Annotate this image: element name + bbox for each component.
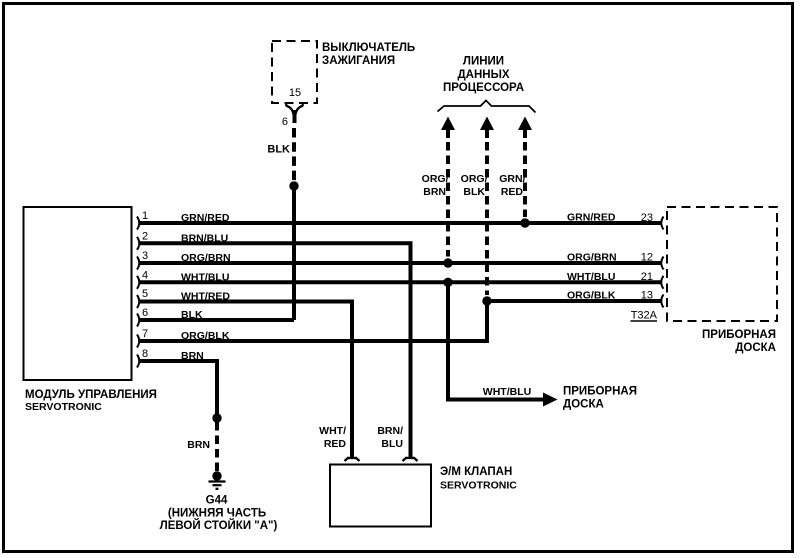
svg-text:8: 8 <box>142 348 148 360</box>
svg-text:GRN/RED: GRN/RED <box>181 212 230 224</box>
svg-text:BRN: BRN <box>187 439 210 451</box>
label G44 <box>160 495 278 533</box>
panel connector pin 21 <box>661 276 663 289</box>
pin 1 connector <box>137 210 148 230</box>
svg-text:ORG/BRN: ORG/BRN <box>567 252 617 264</box>
svg-text:WHT/: WHT/ <box>319 425 346 437</box>
wire WHT/RED pin5 down to valve <box>140 302 352 458</box>
svg-text:ЛИНИИ: ЛИНИИ <box>463 56 504 68</box>
panel connector pin 13 <box>661 295 663 308</box>
panel connector pin 23 <box>661 217 663 230</box>
svg-text:6: 6 <box>142 307 148 319</box>
pin 4 connector <box>137 269 148 289</box>
svg-text:(НИЖНЯЯ ЧАСТЬ: (НИЖНЯЯ ЧАСТЬ <box>168 508 266 520</box>
wire GRN/RED pin1 to panel <box>140 221 661 225</box>
svg-text:BRN/BLU: BRN/BLU <box>181 232 228 244</box>
svg-text:BLK: BLK <box>181 309 203 321</box>
svg-text:13: 13 <box>641 290 653 302</box>
svg-text:4: 4 <box>142 269 148 281</box>
svg-text:1: 1 <box>142 210 148 222</box>
panel connector pin 12 <box>661 257 663 270</box>
svg-text:SERVOTRONIC: SERVOTRONIC <box>440 480 517 492</box>
arrowhead to instrument panel <box>543 393 558 407</box>
wire BLK solid down to pin 6 row <box>292 186 296 320</box>
ground G44 <box>209 471 226 489</box>
wire ORG/BRN pin3 to panel <box>140 261 661 265</box>
svg-text:WHT/BLU: WHT/BLU <box>181 271 229 283</box>
svg-text:SERVOTRONIC: SERVOTRONIC <box>25 401 102 413</box>
svg-text:3: 3 <box>142 250 148 262</box>
svg-text:T32A: T32A <box>631 310 658 322</box>
svg-text:2: 2 <box>142 230 148 242</box>
svg-text:ПРИБОРНАЯ: ПРИБОРНАЯ <box>563 386 637 398</box>
wire BLK dashed from ignition switch <box>292 128 296 183</box>
ignition switch S1 (dashed box) <box>272 41 317 103</box>
junction on GRN/RED row <box>520 218 529 227</box>
svg-text:ORG/BRN: ORG/BRN <box>181 252 231 264</box>
wire WHT/BLU branch to panel arrow <box>448 282 544 399</box>
svg-text:G44: G44 <box>206 495 228 507</box>
svg-text:RED: RED <box>324 438 347 450</box>
valve terminal right <box>403 458 418 461</box>
svg-text:Э/М КЛАПАН: Э/М КЛАПАН <box>440 466 512 478</box>
svg-text:ПРОЦЕССОРА: ПРОЦЕССОРА <box>443 82 524 94</box>
connector id T32A <box>631 310 658 322</box>
svg-text:7: 7 <box>142 328 148 340</box>
wire BRN pin8 down <box>140 361 217 418</box>
svg-text:ORG/: ORG/ <box>461 173 488 185</box>
svg-text:12: 12 <box>641 252 653 264</box>
svg-text:ПРИБОРНАЯ: ПРИБОРНАЯ <box>702 329 776 341</box>
svg-text:ORG/BLK: ORG/BLK <box>181 330 230 342</box>
svg-text:BRN: BRN <box>181 350 204 362</box>
junction on ORG/BRN row <box>443 258 452 267</box>
svg-text:ДОСКА: ДОСКА <box>735 342 776 354</box>
pin 2 connector <box>137 230 148 250</box>
svg-text:ORG/BLK: ORG/BLK <box>567 290 616 302</box>
svg-text:GRN/RED: GRN/RED <box>567 212 616 224</box>
wire WHT/BLU pin4 to panel <box>140 280 661 284</box>
svg-text:23: 23 <box>641 212 653 224</box>
junction on ORG/BLK jog corner <box>482 296 491 305</box>
svg-text:RED: RED <box>501 186 524 198</box>
data arrow GRN/RED (up) <box>518 117 532 218</box>
svg-text:BLU: BLU <box>381 438 403 450</box>
brace over data arrows <box>438 101 536 113</box>
pin 6 connector <box>137 307 148 327</box>
wire BLK pin6 row <box>140 318 294 322</box>
junction on WHT/BLU row <box>443 278 452 287</box>
svg-text:6: 6 <box>282 116 288 128</box>
svg-text:WHT/BLU: WHT/BLU <box>567 271 615 283</box>
svg-text:15: 15 <box>289 87 301 99</box>
pin 5 connector <box>137 288 148 308</box>
valve box <box>330 465 431 527</box>
svg-text:ВЫКЛЮЧАТЕЛЬ: ВЫКЛЮЧАТЕЛЬ <box>322 42 415 54</box>
svg-text:ЗАЖИГАНИЯ: ЗАЖИГАНИЯ <box>322 55 395 67</box>
svg-text:BLK: BLK <box>463 186 485 198</box>
svg-text:МОДУЛЬ УПРАВЛЕНИЯ: МОДУЛЬ УПРАВЛЕНИЯ <box>25 389 157 401</box>
module box U1 <box>24 207 132 380</box>
title processor data lines <box>443 56 524 95</box>
svg-text:WHT/BLU: WHT/BLU <box>483 386 531 398</box>
connector fork at ignition pin 15 <box>286 104 303 123</box>
svg-text:ДАННЫХ: ДАННЫХ <box>457 69 509 81</box>
pin 8 connector <box>137 348 148 368</box>
svg-text:5: 5 <box>142 288 148 300</box>
data arrow ORG/BRN (up) <box>441 117 455 257</box>
svg-text:ORG/: ORG/ <box>422 173 449 185</box>
svg-text:21: 21 <box>641 271 653 283</box>
svg-text:ДОСКА: ДОСКА <box>563 399 604 411</box>
svg-text:BRN/: BRN/ <box>377 425 403 437</box>
data arrow ORG/BLK (up) <box>480 117 494 296</box>
wire BRN/BLU pin2 down to valve <box>140 243 411 457</box>
svg-text:WHT/RED: WHT/RED <box>181 291 230 303</box>
svg-text:BLK: BLK <box>267 144 290 156</box>
junction on BRN ground wire <box>212 413 221 422</box>
svg-text:ЛЕВОЙ СТОЙКИ "А"): ЛЕВОЙ СТОЙКИ "А") <box>160 519 278 532</box>
wire ORG/BLK pin7 jog up to panel row <box>140 301 661 341</box>
pin 7 connector <box>137 328 148 348</box>
svg-text:BRN: BRN <box>423 186 446 198</box>
junction on BLK wire <box>289 181 298 190</box>
wire BRN dashed to ground <box>215 422 219 472</box>
instrument panel box (dashed) <box>667 207 777 321</box>
svg-text:GRN/: GRN/ <box>499 173 525 185</box>
pin 3 connector <box>137 250 148 270</box>
valve terminal left <box>345 458 360 461</box>
